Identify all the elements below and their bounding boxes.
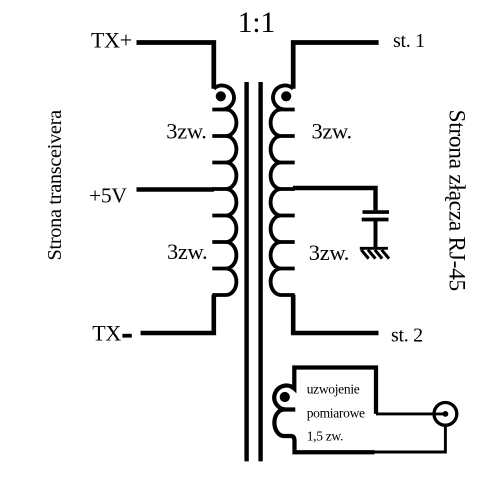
svg-text:1,5 zw.: 1,5 zw.: [307, 428, 343, 443]
svg-text:uzwojenie: uzwojenie: [307, 381, 360, 396]
svg-text:pomiarowe: pomiarowe: [307, 405, 365, 420]
polarity dot secondary: [281, 91, 291, 101]
wire secondary tap to capacitor: [293, 188, 376, 210]
ground slash 3: [375, 250, 382, 259]
wire capacitor to ground: [374, 221, 378, 247]
measurement winding L3 loop and coil: [274, 368, 376, 453]
svg-text:3zw.: 3zw.: [167, 239, 207, 264]
wire TX-: [141, 295, 214, 333]
terminal circle: [434, 403, 457, 426]
terminal dot: [443, 411, 449, 417]
svg-text:st. 1: st. 1: [393, 30, 425, 52]
svg-text:TX+: TX+: [91, 28, 132, 53]
polarity dot primary: [216, 91, 226, 101]
wire +5V center tap: [137, 187, 215, 191]
thin wire to terminal circle: [376, 412, 444, 415]
svg-text:Strona transceivera: Strona transceivera: [44, 110, 66, 261]
ground slash 4: [382, 250, 389, 259]
core line right: [258, 82, 262, 461]
wire st.1: [293, 43, 378, 89]
svg-text:3zw.: 3zw.: [166, 119, 206, 144]
wire st.2: [293, 295, 378, 333]
ground slash 1: [361, 250, 368, 259]
capacitor C1 bottom plate: [362, 218, 389, 222]
primary winding L1: [212, 86, 236, 295]
core line left: [244, 82, 248, 461]
svg-text:3zw.: 3zw.: [309, 240, 349, 265]
wire TX+: [137, 43, 214, 89]
ground bar: [360, 247, 388, 250]
svg-text:TX: TX: [92, 321, 121, 346]
svg-text:Strona złącza RJ-45: Strona złącza RJ-45: [443, 110, 469, 291]
svg-text:1:1: 1:1: [238, 6, 275, 39]
polarity dot measurement winding: [280, 392, 290, 402]
secondary winding L2: [271, 86, 295, 295]
svg-text:st. 2: st. 2: [391, 325, 423, 347]
svg-text:3zw.: 3zw.: [312, 119, 352, 144]
ground slash 2: [368, 250, 375, 259]
thin wire terminal to winding bottom: [374, 424, 445, 453]
svg-text:+5V: +5V: [89, 184, 127, 208]
capacitor C1 top plate: [363, 210, 390, 214]
